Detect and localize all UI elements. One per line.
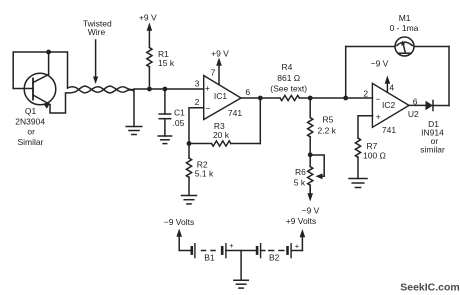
- wire: IC2 output to diode: [409, 104, 426, 106]
- svg-text:−9 V: −9 V: [302, 206, 320, 216]
- svg-text:7: 7: [211, 67, 216, 77]
- ground (battery): [234, 280, 248, 288]
- svg-text:861 Ω: 861 Ω: [277, 73, 300, 83]
- svg-text:15 k: 15 k: [158, 58, 175, 68]
- svg-text:.05: .05: [173, 118, 185, 128]
- svg-text:+9 Volts: +9 Volts: [286, 216, 316, 226]
- svg-text:R5: R5: [323, 115, 334, 125]
- node C1 top: [163, 87, 168, 92]
- capacitor C1: [159, 89, 185, 136]
- svg-text:+: +: [295, 242, 300, 251]
- resistor R1: [147, 48, 175, 90]
- wire: battery centre tap: [240, 251, 242, 281]
- svg-text:R6: R6: [295, 167, 306, 177]
- wire: meter left horizontal: [346, 46, 395, 48]
- wire: R4 to IC2 pin 2: [310, 97, 372, 99]
- svg-text:C1: C1: [174, 107, 185, 117]
- node meter branch: [343, 96, 348, 101]
- svg-text:741: 741: [228, 108, 242, 118]
- svg-text:2: 2: [195, 97, 200, 107]
- svg-text:20 k: 20 k: [213, 130, 230, 140]
- wire: Q1 collector up: [48, 52, 50, 75]
- wire: meter loop left vertical: [345, 47, 347, 99]
- label Q1: [15, 106, 45, 147]
- power +9V (R1): [139, 13, 157, 48]
- svg-text:−9 Volts: −9 Volts: [164, 217, 194, 227]
- svg-text:R7: R7: [367, 141, 378, 151]
- svg-text:4: 4: [389, 82, 394, 92]
- node IC1 output: [258, 96, 263, 101]
- power -9 Volts (B1 left): [164, 217, 194, 250]
- ground (R7): [349, 179, 367, 188]
- svg-text:+9 V: +9 V: [139, 13, 157, 23]
- resistor R5: [308, 98, 337, 155]
- node pin2/R3/R2: [187, 141, 192, 146]
- svg-text:−9 V: −9 V: [371, 58, 389, 68]
- resistor R4: [270, 62, 310, 101]
- svg-text:741: 741: [382, 125, 396, 135]
- svg-text:IC2: IC2: [382, 100, 396, 110]
- potentiometer R6: [294, 155, 324, 194]
- svg-text:B1: B1: [204, 252, 215, 262]
- svg-text:5.1 k: 5.1 k: [195, 169, 214, 179]
- twisted pair wire A: [68, 87, 135, 93]
- svg-text:Q1: Q1: [25, 106, 37, 116]
- svg-text:6: 6: [245, 87, 250, 97]
- svg-text:+: +: [229, 241, 234, 250]
- node R5/R6 junction: [308, 152, 313, 157]
- svg-text:+: +: [205, 83, 210, 93]
- svg-text:5 k: 5 k: [294, 178, 306, 188]
- svg-text:2: 2: [363, 88, 368, 98]
- wire: pin 2 input: [189, 108, 204, 144]
- svg-text:−: −: [376, 94, 381, 104]
- wire: emitter loop: [50, 93, 66, 113]
- resistor R3: [189, 121, 260, 146]
- svg-text:or: or: [27, 127, 35, 137]
- resistor R7: [355, 138, 386, 179]
- power -9V (IC2 pin 4): [371, 58, 391, 92]
- node R1 bottom: [147, 87, 152, 92]
- svg-text:SeekIC.com: SeekIC.com: [400, 282, 460, 294]
- svg-text:2.2 k: 2.2 k: [318, 126, 337, 136]
- svg-text:Wire: Wire: [88, 27, 106, 37]
- ground (C1): [158, 136, 171, 144]
- wire: meter loop right vertical: [448, 47, 450, 106]
- power +9V (IC1 pin 7): [211, 49, 229, 85]
- diode D1: [420, 101, 449, 155]
- node R5 top: [308, 96, 313, 101]
- op-amp IC2: [363, 82, 419, 135]
- wire: feedback vertical: [259, 98, 261, 144]
- meter M1: [390, 13, 419, 56]
- svg-text:M1: M1: [399, 13, 411, 23]
- svg-text:+: +: [376, 112, 381, 122]
- transistor Q1: [13, 73, 56, 109]
- svg-text:100 Ω: 100 Ω: [363, 150, 386, 160]
- svg-text:IC1: IC1: [214, 91, 228, 101]
- twisted pair wire B: [67, 86, 135, 93]
- wire: top loop to twisted pair: [49, 52, 68, 88]
- wire: meter right horizontal: [414, 46, 449, 48]
- power +9 Volts (B2 right): [286, 216, 316, 250]
- svg-text:0 - 1ma: 0 - 1ma: [390, 23, 419, 33]
- battery B2: [257, 242, 302, 263]
- svg-text:B2: B2: [269, 252, 280, 262]
- wire: main input line: [134, 88, 204, 90]
- battery B1: [179, 241, 257, 262]
- svg-text:(See text): (See text): [270, 83, 307, 93]
- node: base-collector junction: [46, 50, 51, 55]
- op-amp IC1: [195, 67, 251, 119]
- svg-text:U2: U2: [408, 109, 419, 119]
- wire: IC2 + input to R7: [358, 116, 373, 138]
- ground (twisted pair return): [126, 91, 142, 135]
- wire: base-collector top loop: [13, 52, 48, 89]
- svg-text:+9 V: +9 V: [211, 49, 229, 59]
- svg-text:similar: similar: [420, 145, 445, 155]
- svg-text:−: −: [206, 103, 211, 113]
- svg-text:3: 3: [195, 79, 200, 89]
- label Twisted Wire: [83, 18, 112, 37]
- resistor R2: [186, 144, 214, 196]
- arrow to twisted wire: [95, 40, 97, 77]
- wire: IC1 out to R4: [241, 97, 280, 99]
- svg-text:Similar: Similar: [18, 137, 44, 147]
- svg-text:2N3904: 2N3904: [15, 116, 45, 126]
- svg-text:R4: R4: [281, 62, 292, 72]
- ground (R2): [182, 196, 197, 204]
- power -9V (R6 bottom): [302, 185, 320, 215]
